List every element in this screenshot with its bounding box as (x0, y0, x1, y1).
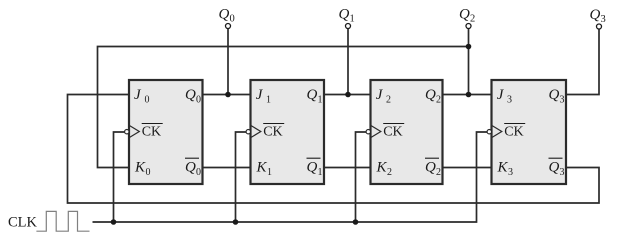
pin label J2 (376, 87, 391, 106)
svg-text:CLK: CLK (8, 215, 38, 231)
junction Q1 output node (345, 92, 351, 98)
svg-text:3: 3 (507, 95, 512, 106)
svg-text:K: K (256, 160, 268, 176)
wire: Q1-bar output to K2 (324, 167, 371, 169)
wire: top feedback from Q2 node to K0 (horizontal y=46.5) (98, 47, 469, 168)
wire: riser from Q2 output to Q2 terminal (468, 29, 470, 95)
svg-text:K: K (134, 160, 146, 176)
wire: Q3-bar feedback to J0 (bottom loop y=203) (68, 95, 600, 204)
flip-flop U3 body (371, 80, 443, 184)
pin label J1 (256, 87, 271, 106)
svg-text:Q: Q (185, 87, 196, 103)
junction Q0 output node (225, 92, 231, 98)
svg-text:K: K (376, 160, 388, 176)
svg-text:Q: Q (425, 160, 436, 176)
junction CLK line at U3 riser (353, 219, 359, 225)
svg-text:Q: Q (459, 7, 470, 23)
svg-text:1: 1 (318, 95, 323, 106)
U2 clock bubble (246, 130, 250, 134)
svg-text:2: 2 (436, 167, 441, 178)
pin label K2 (376, 160, 393, 179)
pin label Q2 (425, 87, 441, 106)
pin label Q1 (307, 87, 323, 106)
CLK waveform symbol (36, 211, 89, 231)
wire: CLK distribution line y=222 with riser to U4 (93, 132, 490, 222)
svg-text:CK: CK (263, 125, 282, 140)
svg-text:3: 3 (601, 14, 606, 25)
svg-text:Q: Q (307, 87, 318, 103)
node Q1 terminal (339, 7, 355, 29)
wire: Q1 output to J2 (324, 94, 371, 96)
junction Q2 output node (466, 92, 472, 98)
svg-text:1: 1 (267, 167, 272, 178)
svg-text:CK: CK (504, 125, 523, 140)
pin label CK (U1) (142, 124, 163, 140)
svg-text:Q: Q (590, 7, 601, 23)
wire: Q0-bar output to K1 (203, 167, 251, 169)
svg-text:3: 3 (508, 167, 513, 178)
node Q2 terminal (459, 7, 475, 29)
pin label K0 (134, 160, 151, 179)
wire: riser from Q3 output to Q3 terminal (566, 29, 599, 94)
svg-text:2: 2 (387, 167, 392, 178)
wire: Q2-bar output to K3 (443, 167, 492, 169)
flip-flop U2 body (251, 80, 325, 184)
svg-text:K: K (497, 160, 509, 176)
svg-text:Q: Q (549, 160, 560, 176)
U2 clock triangle (251, 126, 261, 138)
U1 clock triangle (130, 126, 140, 138)
svg-text:Q: Q (219, 7, 230, 23)
svg-text:3: 3 (560, 167, 565, 178)
pin label Q2-bar (425, 158, 441, 178)
junction CLK line at U1 riser (111, 219, 117, 225)
svg-text:Q: Q (307, 160, 318, 176)
flip-flop U4 body (492, 80, 567, 184)
svg-text:Q: Q (425, 87, 436, 103)
pin label CK (U3) (383, 124, 404, 140)
svg-text:CK: CK (142, 125, 161, 140)
CLK input label (8, 215, 38, 231)
U3 clock triangle (371, 126, 381, 138)
wire: Q0 output to J1 (203, 94, 251, 96)
svg-text:0: 0 (196, 95, 201, 106)
pin label Q3 (549, 87, 565, 106)
svg-text:1: 1 (266, 95, 271, 106)
svg-text:1: 1 (350, 14, 355, 25)
flip-flop U1 body (129, 80, 203, 184)
svg-text:2: 2 (386, 95, 391, 106)
pin label K1 (256, 160, 273, 179)
pin label CK (U4) (504, 124, 525, 140)
pin label Q0-bar (185, 158, 201, 178)
pin label J0 (134, 87, 150, 106)
U3 clock bubble (366, 130, 370, 134)
svg-text:2: 2 (470, 14, 475, 25)
svg-text:Q: Q (339, 7, 350, 23)
junction on top feedback wire at Q2 riser (466, 44, 472, 50)
pin label Q0 (185, 87, 201, 106)
svg-text:2: 2 (436, 95, 441, 106)
svg-text:Q: Q (185, 160, 196, 176)
wire: riser from Q1 output to Q1 terminal (347, 29, 349, 95)
junction CLK line at U2 riser (233, 219, 239, 225)
node Q0 terminal (219, 7, 235, 29)
wire: clock riser to U2 CK (236, 132, 249, 222)
pin label Q3-bar (549, 158, 565, 178)
svg-text:1: 1 (318, 167, 323, 178)
svg-text:0: 0 (196, 167, 201, 178)
node Q3 terminal (590, 7, 606, 29)
pin label Q1-bar (307, 158, 323, 178)
U4 clock bubble (487, 130, 491, 134)
pin label CK (U2) (263, 124, 284, 140)
svg-text:0: 0 (145, 95, 150, 106)
wire: Q2 output to J3 (443, 94, 492, 96)
wire: riser from Q0 output to Q0 terminal (227, 29, 229, 95)
svg-text:CK: CK (383, 125, 402, 140)
wire: clock riser to U1 CK (114, 132, 127, 222)
U1 clock bubble (125, 130, 129, 134)
svg-text:3: 3 (560, 95, 565, 106)
svg-text:0: 0 (230, 14, 235, 25)
wire: clock riser to U3 CK (356, 132, 369, 222)
svg-text:Q: Q (549, 87, 560, 103)
pin label J3 (497, 87, 512, 106)
pin label K3 (497, 160, 514, 179)
svg-text:0: 0 (146, 167, 151, 178)
U4 clock triangle (492, 126, 502, 138)
